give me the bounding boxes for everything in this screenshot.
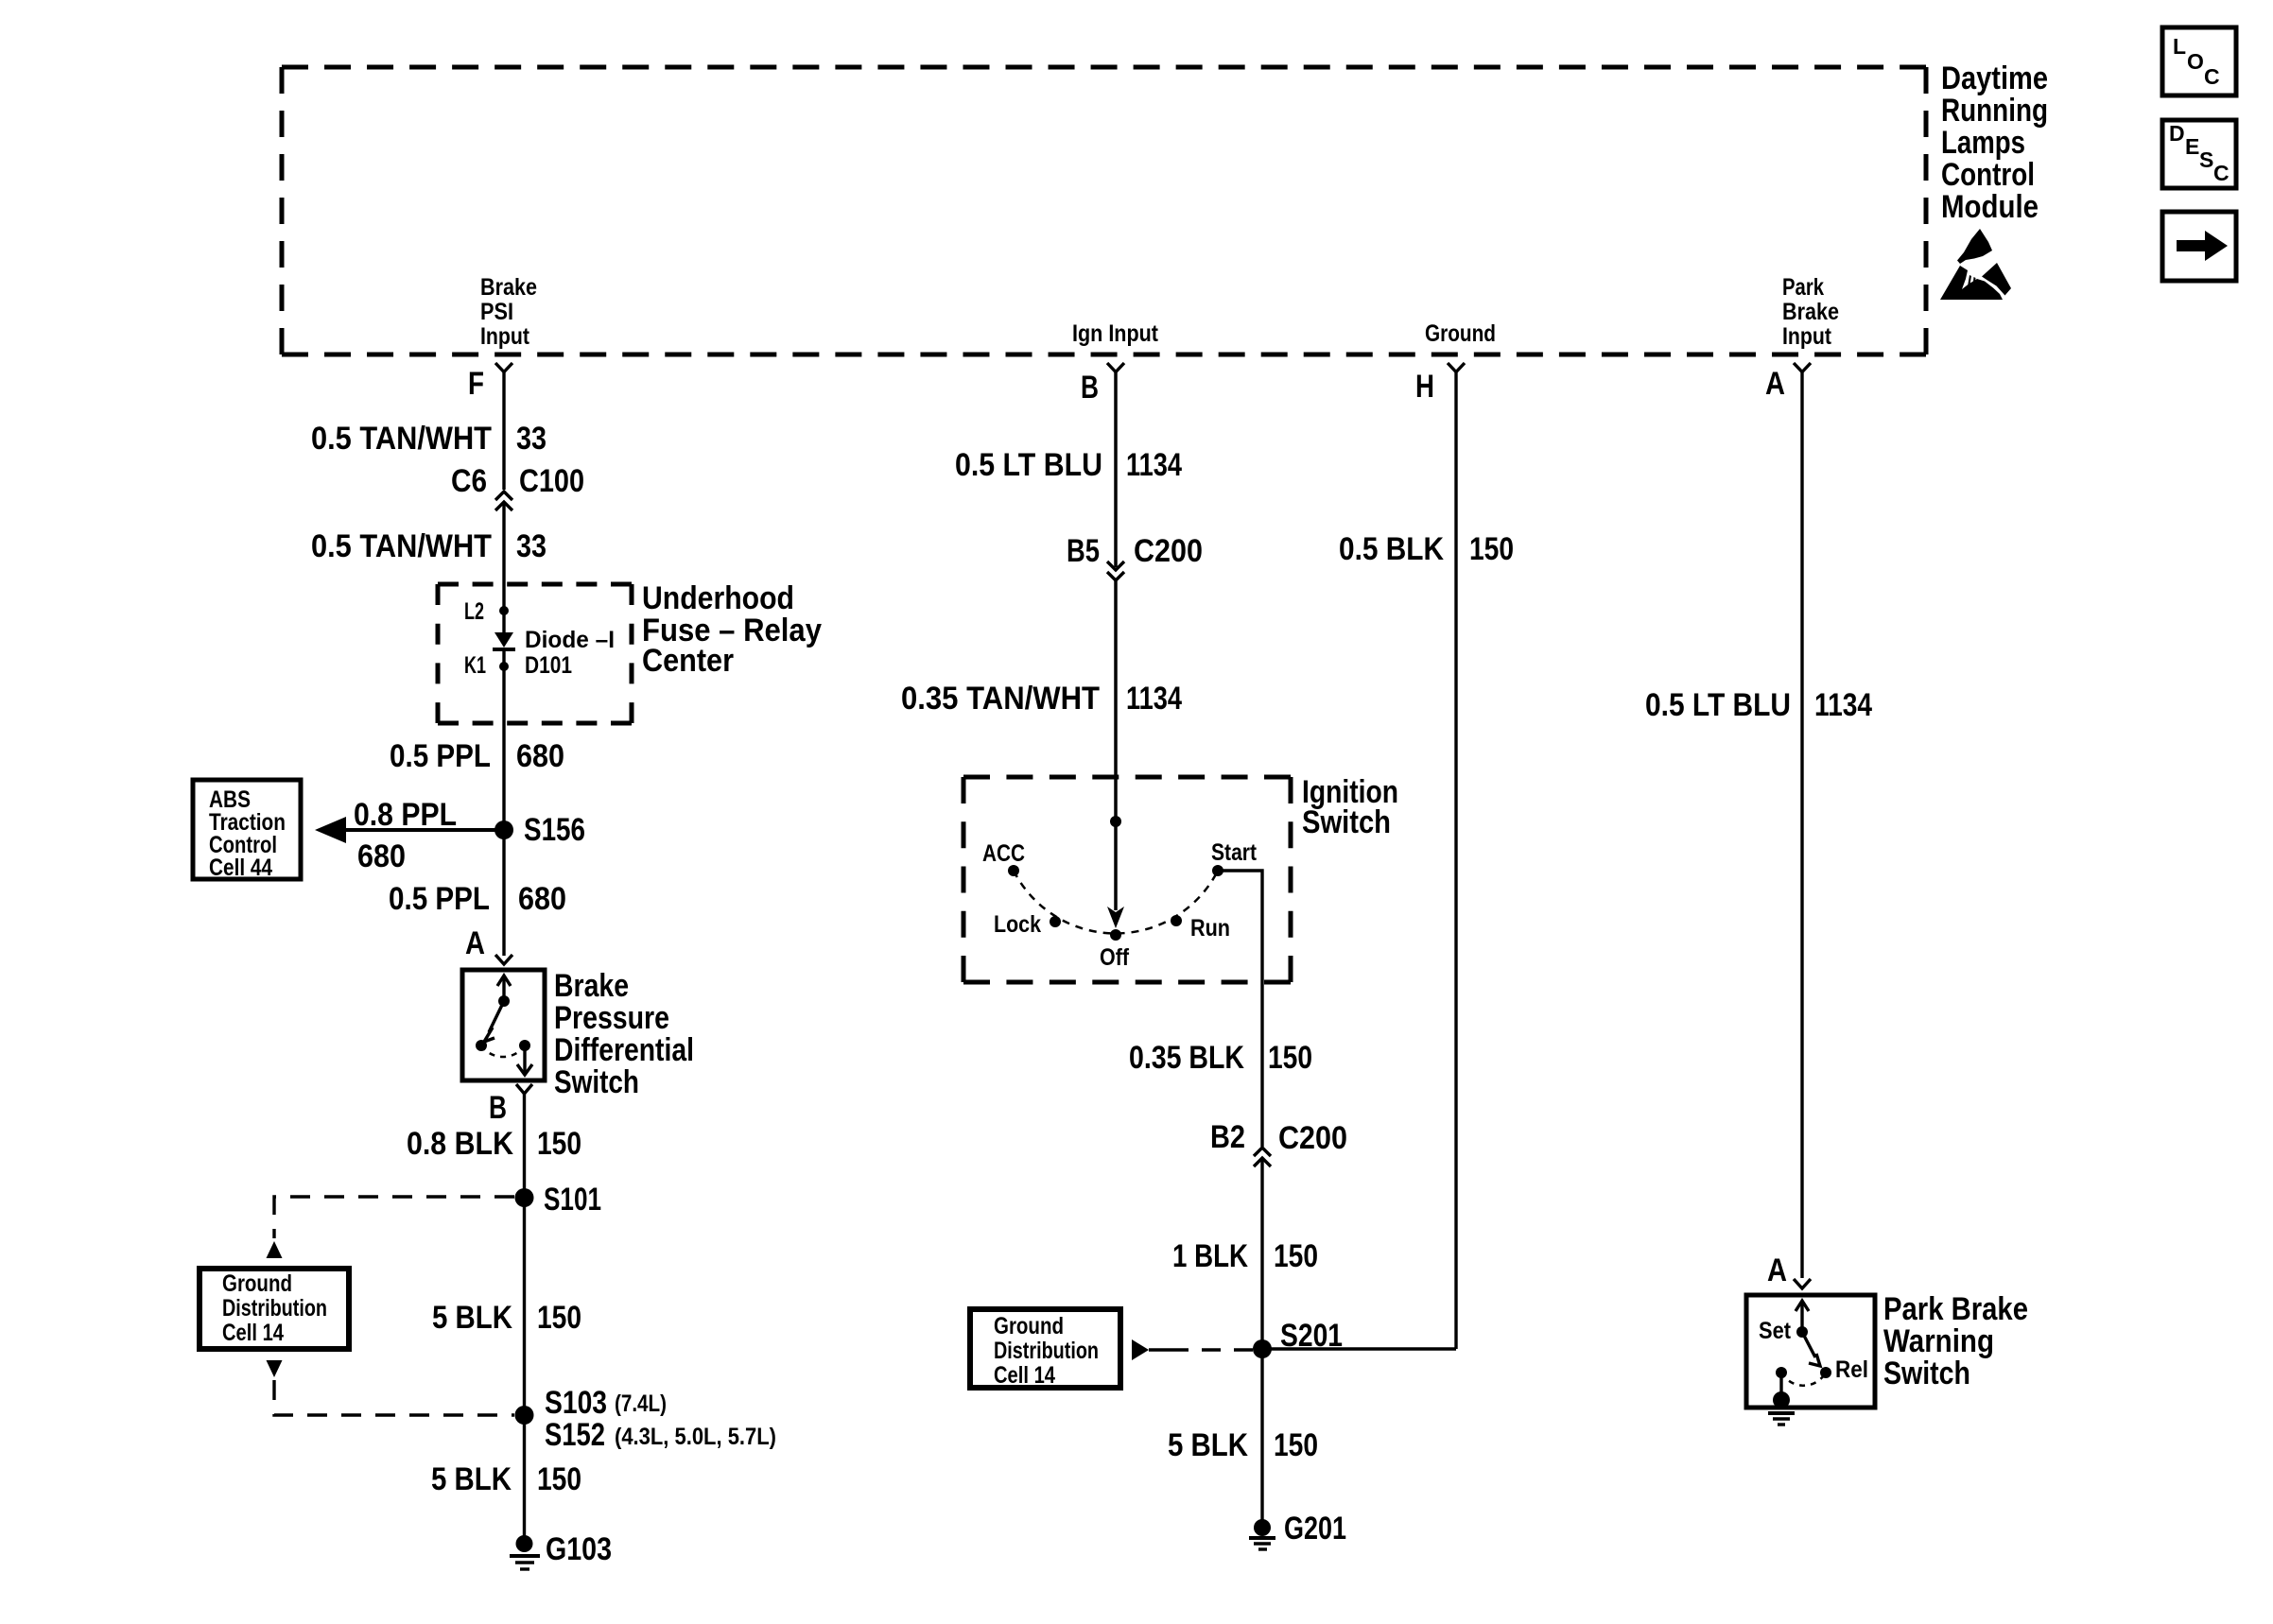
- svg-text:680: 680: [518, 881, 566, 917]
- label: 0.5 BLK 150: [1339, 531, 1514, 567]
- svg-text:G103: G103: [546, 1531, 612, 1567]
- arrow down out of ground distribution box: [267, 1360, 283, 1377]
- SW2 wiper arrow to Off: [1107, 821, 1124, 928]
- SW2 contact Run: [1171, 915, 1230, 942]
- svg-text:H: H: [1415, 369, 1434, 405]
- label: Ignition Switch: [1302, 774, 1398, 840]
- box: Ground Distribution Cell 14 (left): [200, 1269, 349, 1349]
- label: 0.8 BLK 150: [407, 1126, 581, 1162]
- svg-text:Park: Park: [1782, 274, 1824, 301]
- node L2: [464, 598, 509, 625]
- connector pin A of U1 (Y terminal): [1794, 363, 1811, 372]
- svg-text:Switch: Switch: [1302, 804, 1391, 840]
- svg-text:0.5 BLK: 0.5 BLK: [1339, 531, 1444, 567]
- wire: 0.8 BLK 150 from switch to S101: [523, 1093, 526, 1198]
- connector C200 chevrons (down): [1107, 561, 1124, 580]
- svg-text:Off: Off: [1100, 944, 1130, 971]
- label: 0.35 TAN/WHT 1134: [901, 681, 1182, 717]
- SW1 common contact: [498, 995, 510, 1007]
- box: ABS Traction Control Cell 44: [193, 780, 301, 881]
- svg-text:A: A: [465, 925, 485, 961]
- legend box: LOC: [2162, 27, 2236, 95]
- SW2 contact Off: [1100, 929, 1130, 971]
- svg-text:E: E: [2185, 134, 2199, 159]
- svg-text:Set: Set: [1759, 1318, 1792, 1344]
- svg-text:Center: Center: [642, 643, 734, 679]
- svg-text:Daytime: Daytime: [1941, 60, 2048, 96]
- label: 0.5 LT BLU 1134: [955, 447, 1182, 483]
- svg-text:Ground: Ground: [994, 1313, 1064, 1339]
- SW2 feed node: [1110, 816, 1121, 827]
- ground G103: [510, 1531, 612, 1569]
- wire: 0.5 LT BLU 1134 from pin B to C200: [1114, 371, 1118, 567]
- switch SW1: Brake Pressure Differential Switch box: [462, 970, 545, 1080]
- wire: 0.5 PPL 680 from S156 to brake pressure differential switch: [502, 830, 505, 956]
- svg-text:150: 150: [1469, 531, 1514, 567]
- svg-text:Module: Module: [1941, 189, 2039, 225]
- svg-text:Cell 14: Cell 14: [994, 1362, 1055, 1389]
- svg-text:Brake: Brake: [480, 274, 537, 301]
- splice S201: [1253, 1318, 1343, 1358]
- svg-text:Ground: Ground: [222, 1270, 292, 1297]
- wire: 0.35 TAN/WHT 1134 from C200 to ignition switch: [1114, 580, 1118, 821]
- svg-text:Ground: Ground: [1425, 320, 1496, 347]
- label: 0.35 BLK 150: [1129, 1040, 1312, 1076]
- svg-text:0.5 LT BLU: 0.5 LT BLU: [955, 447, 1102, 483]
- SW3 input arrow: [1796, 1301, 1809, 1332]
- svg-text:0.5 PPL: 0.5 PPL: [390, 738, 491, 774]
- svg-text:F: F: [468, 366, 484, 402]
- svg-text:S103: S103: [545, 1385, 607, 1421]
- wire: 0.5 LT BLU 1134 from pin A to park brake warning switch: [1800, 371, 1803, 1278]
- svg-text:C: C: [2213, 161, 2230, 185]
- svg-text:(7.4L): (7.4L): [615, 1391, 667, 1417]
- wire: 0.5 TAN/WHT 33 from C100 to underhood fuse-relay center: [502, 502, 505, 611]
- svg-text:1134: 1134: [1814, 687, 1872, 723]
- svg-text:Underhood: Underhood: [642, 580, 794, 616]
- splice S103 / S152: [515, 1385, 777, 1453]
- svg-text:Diode –I: Diode –I: [525, 627, 615, 653]
- svg-text:C: C: [2204, 64, 2220, 89]
- svg-text:C200: C200: [1278, 1120, 1347, 1156]
- svg-text:0.5 LT BLU: 0.5 LT BLU: [1645, 687, 1791, 723]
- svg-text:Differential: Differential: [554, 1032, 694, 1068]
- label: 5 BLK 150 (middle): [1168, 1427, 1318, 1463]
- label: Brake Pressure Differential Switch: [554, 968, 694, 1100]
- label: 5 BLK 150 (lower): [431, 1461, 581, 1497]
- node K1: [464, 652, 509, 679]
- svg-text:S156: S156: [524, 812, 585, 848]
- svg-text:Cell 44: Cell 44: [209, 855, 272, 881]
- SW1 input arrow: [497, 976, 511, 1001]
- label: Park Brake Warning Switch: [1883, 1291, 2028, 1391]
- svg-text:0.5 TAN/WHT: 0.5 TAN/WHT: [311, 421, 492, 457]
- connector pin B (Y terminal): [516, 1084, 532, 1094]
- dashed link ground distribution cell to S201 with arrow: [1132, 1339, 1253, 1360]
- pin label: Brake PSI Input: [480, 274, 537, 350]
- svg-text:Park Brake: Park Brake: [1883, 1291, 2028, 1327]
- svg-text:Switch: Switch: [1883, 1356, 1970, 1391]
- svg-text:0.8 PPL: 0.8 PPL: [354, 797, 457, 833]
- SW2 contact Lock: [994, 911, 1061, 938]
- splice S101: [515, 1182, 602, 1218]
- wire: 0.8 PPL 680 branch to ABS traction control (arrow): [315, 817, 504, 843]
- svg-text:G201: G201: [1284, 1511, 1346, 1546]
- connector pin F of U1 (Y terminal): [495, 363, 512, 372]
- SW2 contact ACC: [982, 840, 1025, 876]
- SW1 travel arc (dashed): [481, 1045, 525, 1057]
- svg-text:S101: S101: [544, 1182, 601, 1218]
- pin label: Ground: [1425, 320, 1496, 347]
- svg-text:Running: Running: [1941, 93, 2048, 129]
- svg-text:5 BLK: 5 BLK: [431, 1461, 512, 1497]
- svg-text:Rel: Rel: [1835, 1356, 1868, 1383]
- svg-text:Brake: Brake: [1782, 299, 1839, 325]
- SW3 blade with arrowhead: [1802, 1332, 1820, 1366]
- svg-text:Run: Run: [1190, 915, 1230, 942]
- svg-text:150: 150: [537, 1300, 581, 1336]
- SW3 contact Set: [1759, 1318, 1808, 1344]
- pin label: Ign Input: [1072, 320, 1159, 347]
- svg-text:C6: C6: [451, 463, 487, 499]
- SW1 right contact: [519, 1040, 530, 1051]
- svg-text:D101: D101: [525, 652, 572, 679]
- label: 1 BLK 150: [1172, 1238, 1318, 1274]
- diode D101: [493, 611, 515, 666]
- svg-text:B: B: [489, 1090, 507, 1126]
- svg-text:1134: 1134: [1126, 681, 1182, 717]
- svg-text:Ign Input: Ign Input: [1072, 320, 1159, 347]
- connector B5 | C200 labels: [1067, 533, 1203, 569]
- SW1 output arrow: [517, 1045, 532, 1075]
- SW1 left contact: [476, 1040, 487, 1051]
- wire: 5 BLK 150 from S103 to G103: [523, 1415, 526, 1544]
- icon: ESD sensitivity symbol: [1940, 229, 2011, 300]
- wire: 1 BLK 150 from C200 to S201: [1260, 1158, 1263, 1349]
- label: 0.5 PPL 680: [390, 738, 564, 774]
- connector B2 | C200 labels: [1210, 1119, 1347, 1156]
- legend box: arrow: [2162, 212, 2236, 281]
- svg-text:C100: C100: [519, 463, 584, 499]
- wire: S201 to ground pin H riser: [1262, 1347, 1456, 1350]
- svg-text:Control: Control: [1941, 157, 2035, 193]
- svg-text:33: 33: [516, 421, 547, 457]
- svg-text:B: B: [1081, 370, 1099, 406]
- svg-text:680: 680: [516, 738, 564, 774]
- svg-text:0.8 BLK: 0.8 BLK: [407, 1126, 513, 1162]
- svg-text:B2: B2: [1210, 1119, 1245, 1155]
- wire: 0.5 TAN/WHT 33 from pin F to C100: [502, 371, 505, 490]
- connector pin H of U1 (Y terminal): [1448, 363, 1465, 372]
- dashed link S101 to ground distribution cell: [274, 1197, 514, 1238]
- svg-text:0.5 PPL: 0.5 PPL: [389, 881, 490, 917]
- svg-text:S: S: [2199, 147, 2213, 172]
- svg-text:Distribution: Distribution: [994, 1338, 1099, 1364]
- svg-text:Brake: Brake: [554, 968, 629, 1004]
- box: Underhood Fuse-Relay Center (dashed): [438, 584, 632, 723]
- svg-text:K1: K1: [464, 652, 486, 679]
- wire: from Start contact down out of ignition switch: [1218, 871, 1262, 1147]
- label: Diode -I D101: [525, 627, 615, 679]
- SW3 ground leg: [1779, 1373, 1782, 1397]
- svg-text:Start: Start: [1211, 839, 1258, 866]
- svg-text:B5: B5: [1067, 533, 1100, 569]
- svg-text:1 BLK: 1 BLK: [1172, 1238, 1248, 1274]
- SW2 contact Start: [1211, 839, 1258, 876]
- svg-text:A: A: [1765, 366, 1785, 402]
- label: Underhood Fuse - Relay Center: [642, 580, 822, 679]
- wire: 5 BLK 150 from S201 to G201: [1260, 1349, 1263, 1528]
- pin label: Park Brake Input: [1782, 274, 1839, 350]
- wire: 5 BLK 150 from S101 to S103: [523, 1198, 526, 1415]
- svg-text:Lock: Lock: [994, 911, 1041, 938]
- connector C200 chevrons (up): [1254, 1148, 1271, 1166]
- svg-text:150: 150: [537, 1461, 581, 1497]
- switch SW3: Park Brake Warning Switch box: [1746, 1295, 1875, 1408]
- SW3 travel arc (dashed): [1781, 1373, 1826, 1386]
- svg-text:Input: Input: [1782, 323, 1832, 350]
- label: 5 BLK 150 (upper): [432, 1300, 581, 1336]
- svg-text:L: L: [2173, 34, 2186, 59]
- connector pin A (Y terminal) park switch: [1794, 1279, 1811, 1288]
- svg-text:L2: L2: [464, 598, 484, 625]
- svg-text:150: 150: [1268, 1040, 1312, 1076]
- SW3 case ground: [1768, 1391, 1795, 1425]
- svg-text:Cell 14: Cell 14: [222, 1320, 284, 1346]
- connector pin B of U1 (Y terminal): [1107, 363, 1124, 372]
- SW2 travel arc (dashed): [1014, 871, 1218, 933]
- wire: 0.5 PPL 680 from D101 to splice S156: [502, 666, 505, 830]
- svg-text:680: 680: [357, 838, 406, 874]
- svg-text:PSI: PSI: [480, 299, 513, 325]
- svg-text:Input: Input: [480, 323, 530, 350]
- module U1: Daytime Running Lamps Control Module dashed box: [282, 67, 1926, 354]
- svg-text:C200: C200: [1134, 533, 1203, 569]
- svg-text:150: 150: [1274, 1427, 1318, 1463]
- svg-text:A: A: [1767, 1253, 1787, 1288]
- wire: 0.5 BLK 150 from pin H to S201: [1454, 371, 1457, 1349]
- SW3 contact Rel: [1820, 1356, 1868, 1383]
- arrow up into ground distribution box: [267, 1241, 283, 1258]
- label: Daytime Running Lamps Control Module: [1941, 60, 2048, 225]
- splice S156: [495, 812, 585, 848]
- svg-text:Pressure: Pressure: [554, 1000, 669, 1036]
- svg-text:0.35 BLK: 0.35 BLK: [1129, 1040, 1244, 1076]
- svg-text:Lamps: Lamps: [1941, 125, 2025, 161]
- svg-text:Switch: Switch: [554, 1064, 639, 1100]
- svg-text:150: 150: [537, 1126, 581, 1162]
- ground G201: [1249, 1511, 1346, 1549]
- svg-text:0.5 TAN/WHT: 0.5 TAN/WHT: [311, 528, 492, 564]
- connector C6 | C100 labels: [451, 463, 584, 499]
- svg-text:O: O: [2187, 49, 2204, 74]
- svg-text:5 BLK: 5 BLK: [1168, 1427, 1248, 1463]
- svg-text:150: 150: [1274, 1238, 1318, 1274]
- connector pin A (Y terminal): [495, 955, 512, 964]
- dashed link ground distribution cell to S103: [274, 1380, 514, 1415]
- label: 0.5 PPL 680 (second): [389, 881, 566, 917]
- label: 0.5 LT BLU 1134 (right): [1645, 687, 1872, 723]
- svg-text:5 BLK: 5 BLK: [432, 1300, 512, 1336]
- svg-text:Warning: Warning: [1883, 1323, 1994, 1359]
- svg-text:S152: S152: [545, 1417, 605, 1453]
- svg-text:(4.3L, 5.0L, 5.7L): (4.3L, 5.0L, 5.7L): [615, 1424, 776, 1450]
- SW1 blade with arrowhead: [484, 1001, 504, 1042]
- box: Ground Distribution Cell 14 (middle): [970, 1309, 1120, 1389]
- SW3 left contact: [1776, 1367, 1787, 1378]
- svg-text:Distribution: Distribution: [222, 1295, 327, 1322]
- switch SW2: Ignition Switch dashed box: [963, 777, 1291, 982]
- connector C100 chevrons: [495, 492, 512, 510]
- svg-text:ACC: ACC: [982, 840, 1025, 867]
- svg-text:0.35 TAN/WHT: 0.35 TAN/WHT: [901, 681, 1100, 717]
- svg-text:33: 33: [516, 528, 547, 564]
- legend box: DESC: [2162, 120, 2236, 188]
- label: 0.5 TAN/WHT 33: [311, 421, 547, 457]
- svg-text:1134: 1134: [1126, 447, 1182, 483]
- label: 0.5 TAN/WHT 33 (second): [311, 528, 547, 564]
- svg-text:D: D: [2169, 121, 2185, 146]
